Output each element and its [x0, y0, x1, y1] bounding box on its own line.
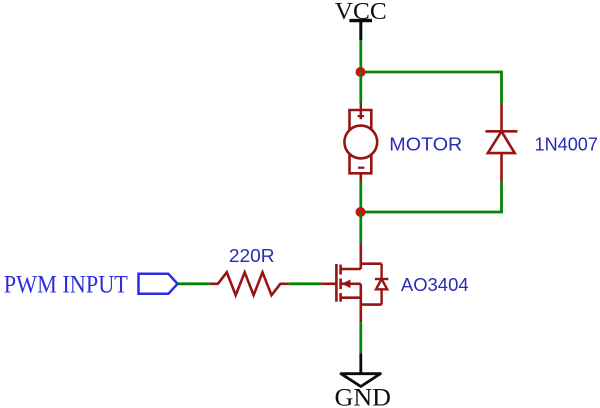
mosfet Q1 AO3404 [322, 243, 382, 322]
wire bottom horizontal from diode [361, 211, 502, 214]
body diode of Q1 [375, 264, 388, 305]
ground symbol [341, 354, 380, 387]
junction bottom [356, 207, 366, 217]
wire mosfet source to ground [359, 322, 362, 353]
svg-text:MOTOR: MOTOR [389, 133, 462, 154]
wire motor top lead [359, 72, 362, 103]
input flag PWM [139, 274, 178, 294]
svg-text:AO3404: AO3404 [401, 274, 469, 295]
junction top [356, 67, 366, 77]
diode D1 1N4007 [486, 104, 518, 182]
wire gate [289, 282, 322, 285]
svg-text:PWM INPUT: PWM INPUT [4, 272, 128, 299]
svg-text:1N4007: 1N4007 [535, 133, 598, 154]
svg-text:VCC: VCC [335, 0, 387, 25]
svg-text:GND: GND [335, 385, 392, 408]
wire junction to mosfet drain [359, 212, 362, 243]
resistor R1 220R [210, 272, 289, 295]
wire top horizontal to diode [361, 71, 502, 74]
wire VCC to top junction [359, 40, 362, 72]
wire motor bottom lead [359, 181, 362, 212]
motor M1 [344, 103, 377, 181]
svg-text:220R: 220R [229, 245, 275, 266]
wire pentagon to resistor [178, 282, 210, 285]
wire right vertical upper [500, 71, 503, 104]
power symbol VCC [349, 21, 372, 40]
wire right vertical lower [500, 181, 503, 213]
